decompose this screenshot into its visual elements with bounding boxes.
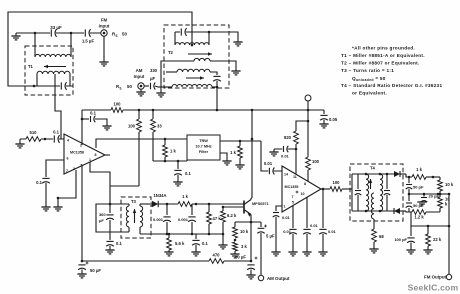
svg-text:MC1355: MC1355: [285, 185, 299, 189]
svg-text:T4 – Standard Ratio Detector G: T4 – Standard Ratio Detector G.I. #36231: [341, 83, 442, 88]
svg-text:0.001: 0.001: [178, 217, 189, 222]
svg-text:50 μF: 50 μF: [90, 268, 101, 273]
svg-text:0.01: 0.01: [264, 161, 273, 166]
svg-text:360: 360: [99, 212, 106, 217]
svg-text:5 μF: 5 μF: [266, 234, 275, 239]
svg-text:3: 3: [73, 167, 75, 171]
svg-text:3 k: 3 k: [241, 244, 247, 249]
svg-text:0.01: 0.01: [282, 215, 291, 220]
svg-text:0.1: 0.1: [202, 241, 208, 246]
svg-text:T2: T2: [168, 50, 174, 55]
svg-text:Input: Input: [134, 74, 145, 79]
svg-text:0.01: 0.01: [281, 154, 290, 159]
svg-text:10 k: 10 k: [240, 229, 249, 234]
svg-text:10.7 MHz: 10.7 MHz: [195, 145, 211, 149]
svg-text:11: 11: [293, 175, 297, 179]
svg-text:5: 5: [292, 201, 294, 205]
svg-text:1 k: 1 k: [170, 149, 176, 154]
svg-text:4: 4: [67, 139, 69, 143]
svg-text:μF: μF: [150, 76, 156, 81]
svg-text:50 pF: 50 pF: [413, 185, 424, 190]
svg-text:100 pF: 100 pF: [394, 237, 407, 242]
svg-text:50: 50: [127, 84, 132, 89]
svg-text:68: 68: [379, 234, 384, 239]
svg-text:0.1: 0.1: [53, 130, 59, 135]
svg-text:1N34A: 1N34A: [153, 193, 166, 198]
svg-text:470: 470: [213, 253, 221, 258]
svg-text:50 μF: 50 μF: [235, 255, 246, 260]
svg-text:1: 1: [284, 205, 286, 209]
svg-text:*All other pins grounded.: *All other pins grounded.: [352, 46, 415, 51]
svg-text:T1 – Miller #8851-A or Equival: T1 – Miller #8851-A or Equivalent.: [341, 53, 425, 58]
svg-text:T3: T3: [131, 199, 137, 204]
svg-text:100: 100: [312, 159, 320, 164]
svg-text:Input: Input: [99, 24, 110, 29]
svg-text:S: S: [115, 34, 117, 38]
svg-text:0.001: 0.001: [153, 217, 164, 222]
svg-text:8: 8: [304, 182, 306, 186]
svg-text:AM Output: AM Output: [267, 276, 290, 281]
svg-text:FM Output: FM Output: [424, 275, 446, 280]
svg-text:0.1: 0.1: [116, 241, 122, 246]
svg-text:50: 50: [122, 32, 127, 37]
svg-text:1 k: 1 k: [182, 194, 188, 199]
svg-text:1 k: 1 k: [416, 167, 422, 172]
svg-text:330: 330: [150, 68, 158, 73]
svg-text:0.05: 0.05: [329, 117, 338, 122]
svg-text:Filter: Filter: [199, 150, 209, 154]
svg-text:1.2 k: 1.2 k: [414, 215, 424, 220]
svg-text:0.1: 0.1: [90, 111, 96, 116]
svg-text:AM: AM: [136, 68, 143, 73]
svg-text:22 k: 22 k: [433, 237, 442, 242]
svg-text:S: S: [119, 87, 121, 91]
svg-text:1: 1: [89, 158, 91, 162]
svg-text:2: 2: [80, 144, 82, 148]
svg-text:7: 7: [292, 195, 294, 199]
svg-text:33 μF: 33 μF: [50, 25, 62, 30]
svg-text:100: 100: [333, 180, 341, 185]
svg-text:100: 100: [114, 102, 122, 107]
svg-text:0.1: 0.1: [36, 180, 42, 185]
svg-text:T1: T1: [28, 64, 34, 69]
svg-text:14: 14: [284, 173, 288, 177]
svg-text:10 k: 10 k: [445, 182, 454, 187]
svg-text:0.01: 0.01: [283, 229, 292, 234]
svg-text:8: 8: [95, 153, 97, 157]
svg-text:100: 100: [128, 124, 136, 129]
svg-text:0.1: 0.1: [185, 171, 191, 176]
svg-text:1.5 μF: 1.5 μF: [82, 39, 95, 44]
svg-text:0.01: 0.01: [310, 223, 319, 228]
svg-text:FM: FM: [101, 18, 108, 23]
svg-text:10: 10: [301, 192, 305, 196]
svg-text:820: 820: [284, 135, 292, 140]
svg-text:47 k: 47 k: [213, 216, 222, 221]
svg-text:or Equivalent.: or Equivalent.: [352, 91, 387, 96]
svg-text:μF: μF: [99, 218, 104, 223]
svg-text:0.01: 0.01: [328, 229, 337, 234]
svg-text:33: 33: [157, 124, 162, 129]
svg-text:5.6 k: 5.6 k: [175, 241, 185, 246]
svg-text:MC1358: MC1358: [70, 151, 84, 155]
svg-text:SeekIC.com: SeekIC.com: [408, 283, 459, 293]
svg-text:1 k: 1 k: [230, 150, 236, 155]
svg-text:510: 510: [30, 130, 38, 135]
svg-text:7: 7: [66, 169, 68, 173]
svg-text:MPS6571: MPS6571: [252, 202, 269, 206]
svg-text:T2 – Miller #8807 or Equivalen: T2 – Miller #8807 or Equivalent.: [341, 61, 420, 66]
svg-text:6: 6: [67, 157, 69, 161]
svg-text:6.2 k: 6.2 k: [227, 213, 237, 218]
svg-text:TRW: TRW: [199, 139, 208, 143]
svg-text:T3 – Turns ratio = 1:1: T3 – Turns ratio = 1:1: [341, 68, 394, 73]
svg-text:T4: T4: [370, 166, 376, 171]
